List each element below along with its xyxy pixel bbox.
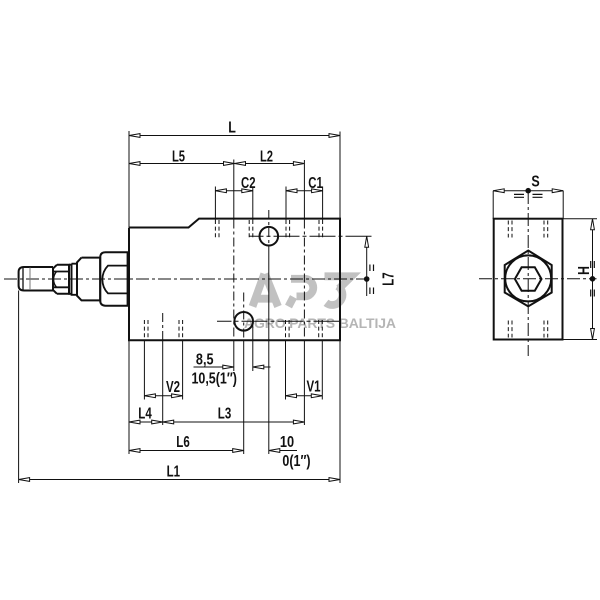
svg-text:0(1″): 0(1″) [282, 452, 310, 470]
cartridge stem [19, 267, 53, 291]
washer ring [69, 265, 72, 294]
svg-text:H: H [575, 266, 593, 275]
circle1 vertical centerline [268, 210, 270, 454]
side view vertical centerline [527, 191, 529, 356]
hidden thread lines bottom [144, 320, 322, 340]
dimension H [563, 219, 598, 340]
dimension L3 [163, 403, 305, 423]
hole centerline x304 [303, 160, 305, 425]
svg-text:L2: L2 [260, 146, 273, 165]
side view body [494, 219, 563, 340]
stem fillet line [22, 268, 24, 291]
dimension C2 [215, 173, 255, 192]
adjust hex nut [53, 265, 69, 294]
port circle top [260, 227, 279, 246]
svg-text:10: 10 [280, 434, 294, 452]
big hex nut [100, 252, 127, 305]
dimension L2 [235, 146, 305, 165]
circle2 vertical centerline [243, 293, 245, 455]
V2 port centerline [162, 313, 164, 425]
watermark APB logo [244, 274, 396, 331]
flange [77, 258, 100, 301]
dimension V2 [144, 377, 182, 398]
svg-text:C2: C2 [241, 173, 256, 191]
side view horizontal centerline [479, 278, 597, 280]
spacer ring [72, 264, 78, 295]
extension lines bottom [19, 291, 340, 484]
valve body outline [129, 219, 340, 341]
svg-text:L4: L4 [138, 403, 152, 421]
svg-text:V2: V2 [166, 377, 180, 395]
dimension L7 [364, 236, 397, 296]
svg-text:L3: L3 [218, 403, 232, 421]
stem thread line [29, 268, 31, 291]
circle2 horizontal centerline [217, 320, 340, 322]
dimension L1 [19, 461, 340, 481]
svg-text:L5: L5 [172, 146, 185, 165]
svg-text:10,5(1″): 10,5(1″) [191, 370, 237, 388]
dimension S [493, 173, 563, 219]
hole centerline x234 [233, 160, 235, 372]
dimension C1 [286, 173, 323, 192]
port circle bottom [234, 312, 253, 331]
hidden thread lines top [215, 220, 322, 238]
dimension L [129, 119, 340, 137]
port label 0(1") [282, 452, 310, 470]
svg-text:L6: L6 [176, 432, 190, 450]
svg-text:8,5: 8,5 [196, 351, 214, 369]
svg-text:V1: V1 [306, 376, 320, 394]
dimension V1 [286, 376, 323, 397]
dimension L6 [129, 432, 297, 452]
dimension L5 [129, 146, 304, 165]
circle1 horizontal centerline [250, 235, 372, 237]
extension lines top [129, 131, 340, 227]
svg-text:L: L [228, 119, 236, 137]
dimension L4 [129, 403, 304, 423]
side view hidden lines [508, 221, 547, 338]
svg-text:L7: L7 [379, 272, 397, 286]
svg-text:L1: L1 [167, 461, 181, 479]
svg-text:AGRO PARTS BALTIJA: AGRO PARTS BALTIJA [244, 315, 396, 331]
svg-text:S: S [531, 173, 539, 191]
hex plug [505, 251, 552, 307]
plug chamfer circle [505, 255, 551, 301]
main horizontal centerline [4, 278, 367, 280]
dimension 8,5 port [191, 351, 270, 388]
hex socket [515, 267, 542, 291]
svg-text:C1: C1 [308, 173, 323, 191]
dimension 10 [269, 434, 294, 452]
